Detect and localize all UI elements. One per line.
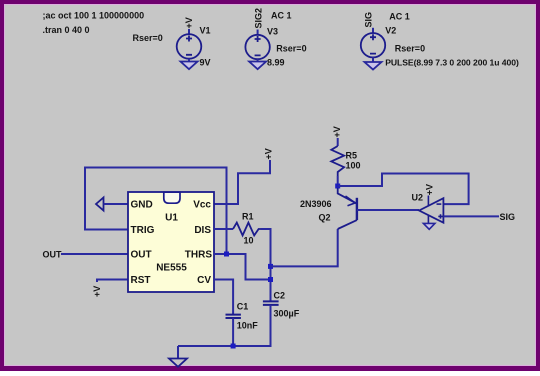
svg-text:Q2: Q2	[319, 213, 331, 223]
svg-text:10: 10	[244, 236, 254, 246]
op-amp U2 top power stub	[427, 196, 429, 206]
svg-text:Rser=0: Rser=0	[133, 33, 163, 43]
svg-text:DIS: DIS	[194, 225, 211, 236]
svg-text:+V: +V	[425, 184, 435, 195]
svg-text:;ac oct 100 1 100000000: ;ac oct 100 1 100000000	[43, 11, 145, 21]
wire V3 top stub	[257, 30, 259, 36]
op-amp U2 minus input mark	[437, 203, 442, 205]
wire ground stub bottom	[177, 346, 179, 359]
wire V1 top stub	[188, 29, 190, 34]
resistor R1	[233, 223, 261, 236]
op-amp U2 bottom power stub	[427, 215, 429, 223]
wire DIS to R1	[214, 228, 233, 230]
node junction THRS-TRIG	[224, 252, 229, 257]
svg-text:9V: 9V	[200, 58, 211, 68]
ground at V1	[181, 62, 198, 70]
wire CV to C1	[214, 280, 233, 315]
op-amp U2	[419, 198, 443, 223]
ground at U2	[423, 223, 435, 229]
wire V3 bottom stub	[257, 59, 259, 61]
svg-text:Rser=0: Rser=0	[395, 44, 425, 54]
svg-text:+V: +V	[92, 286, 102, 297]
svg-text:SIG2: SIG2	[254, 8, 264, 29]
svg-text:AC 1: AC 1	[389, 12, 410, 22]
capacitor C1	[226, 315, 241, 318]
IC U1 NE555 body	[128, 192, 214, 292]
wire OUT	[61, 253, 128, 255]
svg-text:300µF: 300µF	[274, 309, 300, 319]
wire base to U2 output	[357, 209, 419, 211]
svg-text:Vcc: Vcc	[193, 200, 211, 211]
svg-text:+V: +V	[184, 17, 194, 28]
svg-text:.tran 0 40 0: .tran 0 40 0	[43, 25, 90, 35]
svg-text:8.99: 8.99	[267, 58, 285, 68]
svg-text:V1: V1	[200, 26, 211, 36]
capacitor C2	[263, 301, 279, 305]
port arrow at GND pin	[96, 198, 104, 211]
svg-text:OUT: OUT	[43, 250, 63, 260]
svg-text:SIG: SIG	[364, 12, 374, 28]
wire R5 top stub	[337, 138, 339, 146]
svg-text:NE555: NE555	[156, 263, 187, 274]
svg-text:SIG: SIG	[500, 212, 516, 222]
wire V1 bottom stub	[188, 59, 190, 62]
node junction C1 bottom	[231, 344, 236, 349]
svg-text:AC 1: AC 1	[271, 11, 292, 21]
wire collector branch	[271, 229, 338, 266]
svg-text:10nF: 10nF	[237, 321, 259, 331]
transistor Q2 emitter	[338, 188, 357, 204]
svg-text:U1: U1	[165, 213, 178, 224]
transistor Q2 collector	[338, 220, 357, 229]
svg-text:C1: C1	[237, 302, 249, 312]
svg-text:Rser=0: Rser=0	[276, 44, 306, 54]
wire V2 top stub	[372, 28, 374, 33]
wire GND pin	[104, 203, 129, 205]
wire Vcc to +V	[214, 160, 270, 204]
ground bottom	[169, 359, 187, 367]
svg-text:R1: R1	[242, 212, 254, 222]
transistor Q2 base bar	[356, 198, 358, 220]
svg-text:100: 100	[346, 161, 361, 171]
voltage source V1	[177, 34, 202, 59]
svg-text:+V: +V	[264, 148, 274, 159]
svg-text:THRS: THRS	[185, 250, 213, 261]
wire R5 to node	[337, 176, 339, 186]
svg-text:V2: V2	[385, 26, 396, 36]
ground at V2	[365, 62, 382, 70]
wire RST to +V	[97, 280, 128, 283]
node junction THRS-C2	[268, 277, 273, 282]
wire C1 bottom	[232, 318, 234, 346]
svg-text:R5: R5	[346, 151, 358, 161]
node junction collector branch	[268, 264, 273, 269]
svg-text:U2: U2	[412, 193, 424, 203]
node junction emitter	[335, 184, 340, 189]
svg-text:GND: GND	[131, 200, 153, 211]
voltage source V2	[361, 33, 385, 57]
wire C2 bottom	[178, 305, 271, 346]
svg-text:CV: CV	[197, 275, 211, 286]
ground at V3	[249, 62, 266, 70]
svg-text:V3: V3	[267, 27, 278, 37]
svg-text:2N3906: 2N3906	[300, 199, 332, 209]
svg-text:RST: RST	[131, 275, 151, 286]
svg-text:TRIG: TRIG	[131, 225, 155, 236]
wire feedback node to U2 minus	[338, 174, 469, 205]
wire U2 plus input to SIG	[443, 215, 499, 217]
voltage source V3	[245, 35, 269, 59]
IC U1 notch	[164, 192, 180, 203]
wire V2 bottom stub	[372, 57, 374, 62]
wire TRIG feedback loop	[85, 168, 227, 255]
svg-text:PULSE(8.99 7.3 0 200 200 1u 40: PULSE(8.99 7.3 0 200 200 1u 400)	[385, 58, 519, 68]
transistor Q2 emitter arrow	[346, 196, 356, 206]
op-amp U2 plus input mark	[438, 214, 442, 218]
wire R1 to C2 column	[261, 229, 271, 301]
resistor R5	[331, 146, 344, 176]
svg-text:C2: C2	[274, 291, 286, 301]
svg-text:+V: +V	[332, 126, 342, 137]
svg-text:OUT: OUT	[131, 250, 152, 261]
wire THRS jog	[214, 254, 271, 280]
